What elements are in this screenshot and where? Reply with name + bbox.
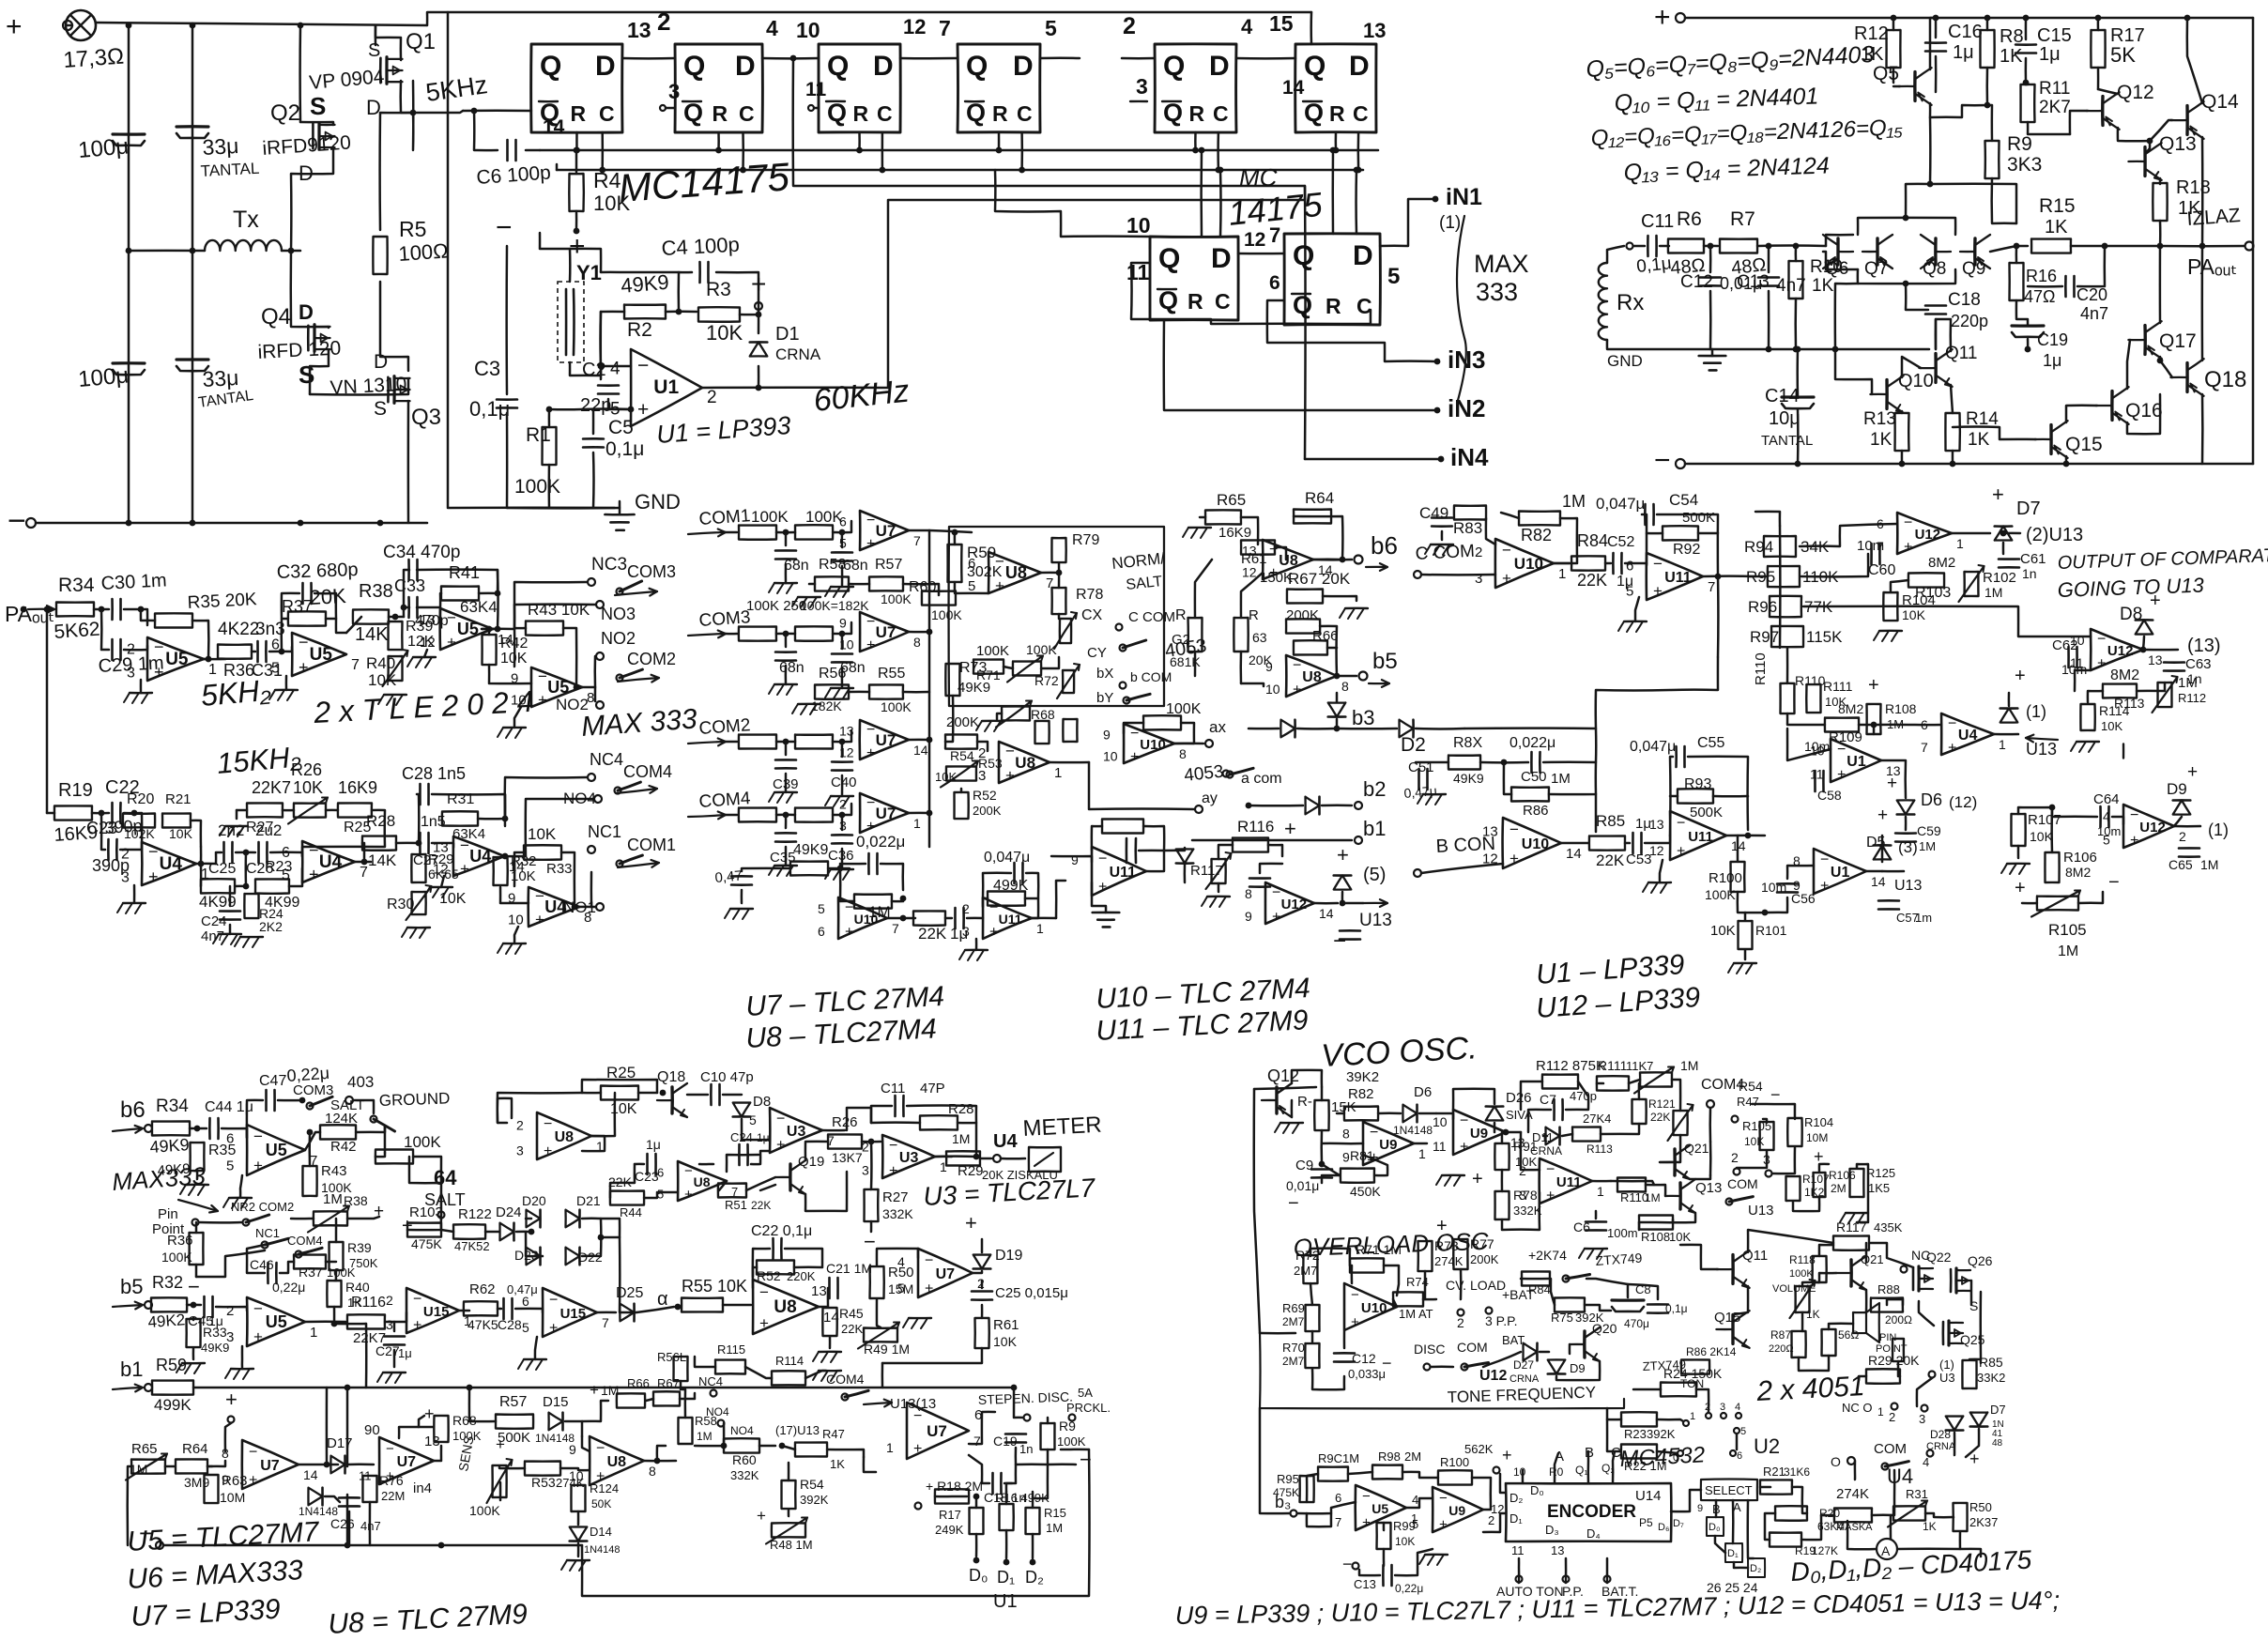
wire D14 gnd [577,1543,580,1557]
flip-flop FF3 [819,44,900,132]
svg-text:7: 7 [1708,579,1715,595]
wire 200K fb [1320,626,1337,676]
wire U4b out [355,861,371,864]
resistor R36g [190,1233,204,1265]
wire U8d out [1337,675,1356,678]
wire R71 to U10h [1350,1265,1352,1283]
wire R67g to NC4 [680,1393,695,1399]
svg-text:R21: R21 [1763,1465,1785,1479]
svg-text:C47: C47 [259,1073,286,1089]
resistor R19 [54,805,92,820]
svg-text:+: + [1546,1188,1555,1204]
svg-text:Q: Q [1304,51,1326,82]
junction [99,606,105,613]
svg-text:5KH₂: 5KH₂ [199,673,271,713]
wire R112-R111 [1597,1082,1603,1085]
svg-text:R50: R50 [888,1265,914,1281]
junction [1891,15,1897,22]
wire to C11 [1633,245,1645,248]
svg-text:R: R [992,101,1008,126]
capacitor C20 [2064,276,2067,297]
svg-text:2: 2 [1731,1150,1739,1165]
inductor RX [1599,263,1607,340]
wire R2-R3 [666,311,697,314]
svg-text:D2: D2 [1401,734,1426,756]
junction [1433,196,1439,203]
svg-text:+: + [249,1473,257,1489]
svg-text:U9: U9 [1448,1503,1465,1518]
svg-text:2 x 4051: 2 x 4051 [1755,1371,1866,1407]
capacitor C 33u tantal [176,125,208,128]
resistor R19h [1770,1533,1801,1547]
terminal r18 [915,1503,922,1510]
svg-text:+: + [2150,590,2161,611]
resistor R122 [453,1224,485,1239]
resistor R70 [1305,1343,1319,1368]
svg-text:+: + [1272,909,1280,925]
svg-text:+: + [684,1187,693,1203]
diode D27 [1524,1343,1538,1361]
wire C14 bot [1797,410,1800,464]
terminal cv3 [1486,1308,1493,1314]
resistor R37g [294,1255,326,1269]
resistor R67 [1287,590,1323,604]
ground R65 [1188,527,1211,529]
capacitor C0047 [1013,863,1016,883]
wire C22g right [785,1249,822,1267]
wire to C6 [474,111,498,150]
svg-text:(12): (12) [1949,793,1977,811]
junction [1438,456,1445,463]
junction [1218,167,1224,174]
wire C36 top [841,815,844,830]
wire R18 to out [2159,221,2162,246]
wire R105 right [2078,892,2103,903]
capacitor C53 [1632,833,1634,853]
resistor R62g [464,1301,498,1315]
svg-text:R36: R36 [167,1233,193,1249]
junction [410,110,417,116]
wire R9 top [1987,105,1992,141]
resistor R113 [2103,684,2137,698]
terminal sw4 [1736,1413,1741,1419]
svg-text:10M: 10M [220,1490,245,1505]
svg-text:R82: R82 [1521,526,1552,544]
resistor R85h [1962,1360,1976,1388]
wire U12e+ down [2075,670,2091,691]
svg-text:U12: U12 [1281,897,1308,913]
junction [198,861,205,867]
capacitor C65 [2179,847,2199,850]
capacitor C u13 [1340,929,1360,932]
wire pin point [199,1221,242,1224]
svg-text:Y1: Y1 [576,261,602,284]
resistor R86h [1681,1359,1709,1373]
wire R117h to Q22 [1869,1243,1913,1267]
svg-text:Q13: Q13 [1695,1180,1722,1196]
svg-text:U8: U8 [1015,754,1035,772]
wire C drop [601,132,604,170]
wire R100 bottom [1738,892,1769,913]
junction [973,1494,980,1500]
svg-text:C12: C12 [1680,272,1713,292]
svg-text:R95: R95 [1277,1472,1299,1486]
terminal CX [1116,624,1123,631]
svg-text:+: + [913,1441,922,1457]
svg-text:R59: R59 [156,1356,187,1374]
wire R64 fb [1294,516,1342,560]
switch COM2 D [617,675,623,682]
wire R16 top [2015,246,2018,263]
junction [2063,461,2070,468]
resistor R115 [715,1360,745,1374]
svg-text:−: − [1130,726,1139,742]
wire b5 arrow g [113,1305,143,1307]
svg-text:R57: R57 [499,1394,527,1410]
junction [1762,910,1769,916]
wire to FF5D [1122,57,1155,60]
wire U11b gnd [1092,882,1106,913]
wire R51g right [760,1185,775,1190]
wire to R44g [610,1164,635,1198]
svg-text:−: − [1948,716,1956,732]
svg-text:1μ: 1μ [757,1131,770,1144]
wire R58 gnd lead [809,583,815,586]
wire Rx top [1607,246,1624,263]
resistor R61g [975,1318,989,1348]
junction [1030,1559,1036,1566]
op-amp U10h [1344,1283,1397,1330]
ground C37 [774,582,797,585]
svg-text:332K: 332K [730,1468,759,1482]
svg-text:R57: R57 [875,557,902,573]
svg-text:−: − [995,553,1004,571]
svg-text:R65: R65 [131,1441,158,1457]
svg-text:2: 2 [127,642,135,658]
wire pp lead [1565,1558,1568,1583]
wire into divider [1755,575,1768,578]
wire C27g top [393,1322,396,1331]
svg-text:+: + [1992,483,2004,506]
svg-text:−: − [8,503,26,539]
transistor Q21h [1673,1149,1677,1175]
svg-text:13: 13 [433,840,449,856]
wire R105h top [1763,1119,1767,1123]
terminal b6 [1355,556,1363,564]
potentiometer R105 [2037,897,2078,911]
wire R115 left [695,1357,715,1367]
svg-text:R108: R108 [1641,1230,1670,1244]
wire U4f out [1994,733,2018,736]
terminal com4 h [1707,1100,1714,1108]
svg-text:−: − [925,1252,933,1268]
resistor R40g [327,1281,341,1307]
svg-text:D6: D6 [1414,1084,1432,1100]
wire R21 to node [191,820,201,847]
svg-text:C13: C13 [1354,1577,1376,1591]
resistor R104h [1787,1118,1801,1146]
wire C26 gnd [348,1511,351,1545]
svg-text:U4: U4 [993,1131,1018,1152]
wire R116g out [385,1312,406,1322]
wire b1 drop [346,1388,349,1466]
wire C28g to U15b [515,1309,543,1312]
resistor R49K9 [790,862,828,876]
wire C13 bot [1768,291,1770,349]
wire R110 to R109 [1787,713,1825,725]
svg-text:−: − [2097,632,2106,648]
wire Q1 drain node [412,81,415,150]
wire R113-R112 [2137,682,2165,691]
junction [2102,243,2108,250]
wire U8j out [644,1460,676,1463]
svg-text:−: − [253,1127,263,1145]
svg-text:−: − [1005,743,1015,760]
wire R19 out [92,812,109,815]
wire R36g to sw [196,1250,265,1277]
svg-text:NC O: NC O [1842,1401,1873,1415]
wire autoton lead [1518,1558,1521,1583]
svg-text:R94: R94 [1744,538,1773,556]
svg-text:−: − [1546,1162,1555,1178]
wire fb up [679,272,692,312]
svg-text:C: C [739,101,755,126]
ground U4c [430,886,452,888]
junction [779,1443,786,1449]
terminal autoton [1516,1576,1523,1583]
svg-text:bY: bY [1096,690,1113,706]
resistor R108h [1639,1216,1673,1230]
svg-text:−: − [1098,851,1107,867]
svg-text:IZLAZ: IZLAZ [2186,205,2242,230]
wire U11b top in [1051,856,1092,862]
resistor R114 [2080,704,2094,730]
svg-text:R61: R61 [993,1317,1019,1333]
resistor R107h [1786,1176,1801,1201]
svg-text:−: − [864,1230,876,1253]
svg-text:8M2: 8M2 [1838,701,1863,716]
wire C7 to R112h [1566,1081,1588,1110]
wire Q14 coll [2187,18,2202,103]
svg-text:2: 2 [839,797,847,812]
junction [1871,722,1877,728]
resistor R95h [1300,1476,1314,1502]
capacitor C36 [832,834,852,836]
wire R drop [1194,132,1197,150]
wire Db2 out [1322,805,1352,807]
wire R82h-D6h [1378,1112,1401,1115]
svg-text:1M: 1M [1680,1058,1698,1073]
svg-text:1M: 1M [130,1462,147,1477]
svg-text:−: − [866,513,875,529]
svg-text:1: 1 [1956,536,1964,551]
wire Q3 source to rail [407,401,410,523]
resistor R111 [1806,684,1820,713]
wire bus to FF7 [1200,150,1203,237]
wire R103g-R122 [441,1230,453,1232]
wire to C0022 [840,864,866,868]
svg-text:C25 0,015μ: C25 0,015μ [995,1285,1068,1301]
switch bX [1063,670,1074,693]
resistor R100 [1731,862,1745,892]
op-amp U9b [1453,1110,1506,1155]
resistor RPP [1893,1339,1904,1361]
wire nr2 to R38g [291,1218,314,1220]
svg-text:5: 5 [2103,833,2110,848]
wire 1M left [840,868,854,901]
svg-text:11: 11 [359,1469,372,1483]
svg-text:90: 90 [364,1422,380,1438]
wire R53g out [560,1468,590,1470]
svg-text:R69: R69 [1282,1301,1305,1315]
wire R73 down [945,696,953,742]
wire R65 left down [128,1466,131,1545]
wire R9 to Q5 node [1930,184,2016,223]
junction [2000,530,2007,537]
svg-text:D7: D7 [2016,498,2041,519]
svg-text:1M: 1M [601,1383,619,1398]
svg-text:−: − [1820,852,1829,868]
svg-text:+: + [637,399,649,421]
resistor R24 [244,894,258,918]
svg-text:Q16: Q16 [2125,400,2163,422]
svg-text:ZTX749: ZTX749 [1642,1357,1686,1373]
svg-text:S: S [299,360,314,389]
svg-text:U1: U1 [653,376,679,398]
ground C38 [831,586,853,588]
wire FF5Q-FF6D [1236,57,1295,60]
resistor R12 [1887,30,1901,68]
svg-text:R: R [1326,294,1341,318]
svg-text:2: 2 [1123,13,1136,39]
wire U5d gnd [514,707,521,728]
resistor R9g [1041,1423,1055,1449]
resistor R83 [1454,506,1486,520]
svg-text:1K: 1K [1812,276,1834,296]
junction [599,167,605,174]
svg-text:R103: R103 [409,1204,443,1220]
svg-text:+: + [413,1317,421,1333]
resistor R33 [524,845,561,860]
svg-text:+: + [309,865,319,883]
wire C46 left [247,1245,265,1273]
resistor R57 [869,576,903,590]
wire R92 right [1698,532,1718,535]
svg-text:R: R [1175,607,1187,623]
svg-text:R5: R5 [399,217,426,241]
svg-text:−: − [549,1292,558,1308]
transistor Q5 [1913,72,1917,101]
svg-text:1M: 1M [697,1430,713,1443]
resistor R82h [1344,1107,1378,1121]
resistor R75h [1555,1297,1585,1311]
wire b6 arrow g [113,1128,143,1131]
svg-text:R41: R41 [449,563,480,582]
svg-text:C5: C5 [608,417,634,438]
wire C23g-U8i [699,1163,713,1166]
resistor R47 [795,525,833,539]
svg-text:−: − [1502,541,1511,559]
svg-text:R35 20K: R35 20K [187,590,257,613]
wire FF7 wrap [1131,263,1371,324]
svg-text:10μ: 10μ [1769,408,1801,429]
terminal NO2b [596,701,604,709]
wire U12d out [1952,532,1990,535]
svg-text:10m: 10m [1761,880,1786,895]
capacitor C6 [506,140,509,161]
svg-text:+: + [1653,582,1663,600]
terminal 4 h [1927,1450,1934,1457]
wire C22 to U4a [124,813,142,847]
svg-text:3: 3 [962,924,970,939]
wire R120 to Q21h [1660,1135,1680,1162]
wire D25 out [636,1307,674,1312]
svg-text:R20: R20 [127,791,154,807]
svg-text:Q1: Q1 [406,29,436,54]
wire bus R [540,149,1378,152]
svg-text:R3: R3 [706,279,731,300]
svg-text:NC4: NC4 [698,1374,723,1388]
svg-text:α: α [657,1289,668,1310]
wire PAout down to 15k [46,612,49,813]
svg-text:R122: R122 [458,1206,492,1222]
wire to C33 [404,607,409,617]
terminal O h [1847,1457,1855,1465]
wire D6 down [1905,817,1908,830]
junction [856,147,863,154]
svg-text:R33: R33 [546,861,573,877]
resistor R23h [1621,1412,1657,1426]
svg-text:+: + [1351,1314,1359,1330]
wire C drop [881,132,884,170]
wire d23 in [526,1232,543,1256]
lamp fuse indicator [66,10,96,40]
svg-text:6: 6 [818,924,825,939]
resistor R28g [920,1115,958,1129]
svg-text:a com: a com [1241,771,1282,787]
potentiometer R38g [314,1211,347,1225]
wire R47g out [827,1449,864,1457]
wire C5 down [592,452,595,508]
wire C0022 right [881,864,903,890]
wire C37 top [785,532,788,545]
capacitor C28g [502,1298,505,1319]
resistor R93 [1678,789,1713,804]
capacitor C61 [1999,558,2019,560]
svg-text:D15: D15 [543,1394,569,1410]
svg-text:12: 12 [1482,851,1498,867]
junction [1334,726,1341,732]
op-amp U3b [882,1135,935,1178]
svg-text:Q17: Q17 [2159,330,2197,352]
svg-text:R51: R51 [725,1198,747,1212]
svg-text:U12: U12 [2139,820,2166,836]
capacitor C21g [828,1278,831,1298]
op-amp U1 [631,349,702,426]
junction [298,520,304,527]
svg-text:D8: D8 [2120,605,2142,624]
svg-text:NC1: NC1 [255,1226,280,1240]
resistor R10 [1789,261,1803,299]
svg-text:−: − [1439,1491,1448,1507]
wire Q3 drain to R5 [380,282,408,371]
capacitor C4 [698,262,701,283]
svg-text:R28: R28 [366,812,395,830]
wire R54 out [977,742,988,751]
svg-text:100K: 100K [404,1133,441,1151]
svg-text:13: 13 [627,18,651,42]
svg-text:11K7: 11K7 [1626,1059,1653,1073]
